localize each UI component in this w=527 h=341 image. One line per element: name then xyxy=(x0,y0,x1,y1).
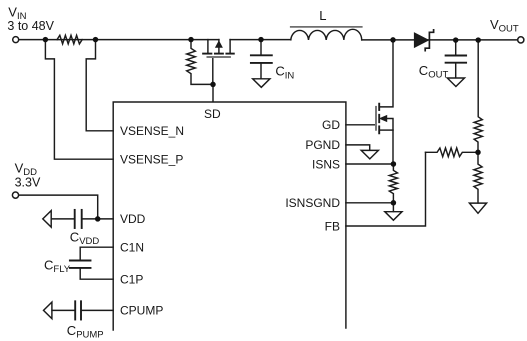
wire: ISNS pin to sense node xyxy=(346,163,394,165)
ground: divider ground xyxy=(469,203,486,213)
capacitor COUT: top lead xyxy=(455,40,457,55)
capacitor CFLY: plates xyxy=(70,261,91,268)
inductor L: core bar (gray) xyxy=(291,26,362,28)
svg-text:VSENSE_P: VSENSE_P xyxy=(120,153,183,167)
svg-text:VDD: VDD xyxy=(120,212,146,226)
svg-text:SD: SD xyxy=(204,107,221,121)
capacitor CIN: plates xyxy=(251,55,272,63)
svg-text:C1P: C1P xyxy=(120,273,143,287)
capacitor CVDD: plates (vertical) xyxy=(75,210,82,228)
wire: rail from PMOS source to inductor xyxy=(230,39,291,41)
svg-text:COUT: COUT xyxy=(419,63,449,81)
terminal: VIN port xyxy=(13,37,19,43)
svg-text:FB: FB xyxy=(325,219,340,233)
node: junction dot divider top tap xyxy=(475,37,481,43)
terminal: VDD port xyxy=(12,192,18,198)
capacitor CVDD: leads xyxy=(83,218,98,220)
transistor Q2: body arrow (left) xyxy=(380,116,387,122)
resistor: input sense resistor xyxy=(57,35,82,44)
node: junction dot COUT tap xyxy=(453,37,459,43)
svg-text:CPUMP: CPUMP xyxy=(120,304,163,318)
wire: VIN rail left segment xyxy=(19,39,219,41)
svg-text:C1N: C1N xyxy=(120,241,144,255)
wire: ISNSGND pin to sense node xyxy=(346,202,394,204)
wire: VDD terminal to VDD pin xyxy=(19,195,114,219)
resistor: divider lower resistor xyxy=(474,152,482,203)
capacitor CPUMP: plates (vertical) xyxy=(75,301,81,319)
resistor: divider upper resistor xyxy=(474,40,482,152)
transistor Q1: gate bar (gray) xyxy=(208,56,230,58)
capacitor CIN: top lead xyxy=(260,40,262,55)
diode D1: cathode bar with schottky hooks xyxy=(425,30,433,51)
svg-text:CIN: CIN xyxy=(275,64,294,82)
node: junction dot divider mid xyxy=(475,150,481,156)
svg-text:3 to 48V: 3 to 48V xyxy=(7,19,54,33)
transistor Q2: drain lead to switch node xyxy=(379,40,393,107)
svg-text:VOUT: VOUT xyxy=(490,17,519,35)
node: junction dot ISNS node xyxy=(391,161,397,167)
terminal: VOUT port xyxy=(518,37,524,43)
diode D1 schottky: anode triangle xyxy=(414,33,428,47)
wire: CFLY to C1P pin xyxy=(80,269,113,279)
transistor Q2: channel contact bars xyxy=(378,104,380,134)
svg-text:GD: GD xyxy=(322,118,340,132)
wire: right junction to VSENSE_N pin xyxy=(86,40,113,131)
capacitor COUT: plates xyxy=(446,56,467,63)
node: junction dot pulldown resistor top xyxy=(188,37,194,43)
node: junction dot switch node xyxy=(390,37,396,43)
svg-text:L: L xyxy=(319,8,326,23)
IC U1: controller box outline (bottom open) xyxy=(113,102,346,330)
wire: rail from inductor to diode/VOUT terminal xyxy=(362,39,518,41)
capacitor CPUMP: left lead xyxy=(52,309,74,311)
resistor: current sense resistor xyxy=(389,164,397,203)
node: junction dot input resistor left xyxy=(43,37,49,43)
transistor Q1: channel contact bars xyxy=(203,53,234,55)
ground: COUT ground xyxy=(447,78,464,87)
node: junction dot input resistor right xyxy=(93,37,99,43)
wire: SD node into IC top xyxy=(212,84,214,101)
wire: C1N pin jog to CFLY xyxy=(80,247,113,260)
svg-text:VSENSE_N: VSENSE_N xyxy=(120,124,184,138)
svg-text:ISNSGND: ISNSGND xyxy=(285,196,340,210)
capacitor COUT: bottom lead xyxy=(455,64,457,78)
node: junction dot CIN tap xyxy=(258,37,264,43)
node: junction dot VDD node xyxy=(95,216,101,222)
ground: PGND ground with stub xyxy=(346,145,370,150)
node: junction dot ISNSGND node xyxy=(391,200,397,206)
resistor: SD gate pulldown xyxy=(187,40,213,85)
transistor Q2: gate bar (gray) xyxy=(375,107,377,130)
svg-text:ISNS: ISNS xyxy=(312,157,340,171)
svg-text:CFLY: CFLY xyxy=(44,257,71,275)
wire: CPUMP pin to CPUMP cap xyxy=(82,309,113,311)
inductor L: winding arcs xyxy=(291,29,362,40)
wire: left junction to VSENSE_P pin xyxy=(45,40,113,160)
svg-text:CVDD: CVDD xyxy=(70,230,100,248)
transistor Q1: source lead xyxy=(229,40,231,53)
svg-text:3.3V: 3.3V xyxy=(15,175,41,189)
resistor: FB feed resistor (horizontal) xyxy=(426,148,479,157)
ground: CIN ground xyxy=(253,79,270,88)
wire: PMOS gate lead down to SD node xyxy=(212,58,214,85)
transistor Q1: body arrow (up) xyxy=(216,42,222,48)
svg-text:PGND: PGND xyxy=(305,138,340,152)
transistor Q2: body tail and source lead down to ISNS node xyxy=(387,119,394,165)
svg-text:CPUMP: CPUMP xyxy=(67,323,104,341)
wire: FB pin to divider xyxy=(346,152,426,226)
node: junction dot SD node xyxy=(210,82,216,88)
ground: CPUMP rotated ground (left) xyxy=(44,302,52,319)
transistor Q2 N-MOSFET: gate wire from GD xyxy=(346,124,376,126)
ground: CVDD rotated ground (left) xyxy=(43,211,51,228)
transistor Q1 P-MOSFET disconnect switch: drain lead xyxy=(207,40,209,53)
transistor Q1: body lead stem xyxy=(218,40,220,53)
capacitor CIN: bottom lead xyxy=(260,64,262,79)
ground: ISNSGND ground with stub xyxy=(392,203,394,212)
